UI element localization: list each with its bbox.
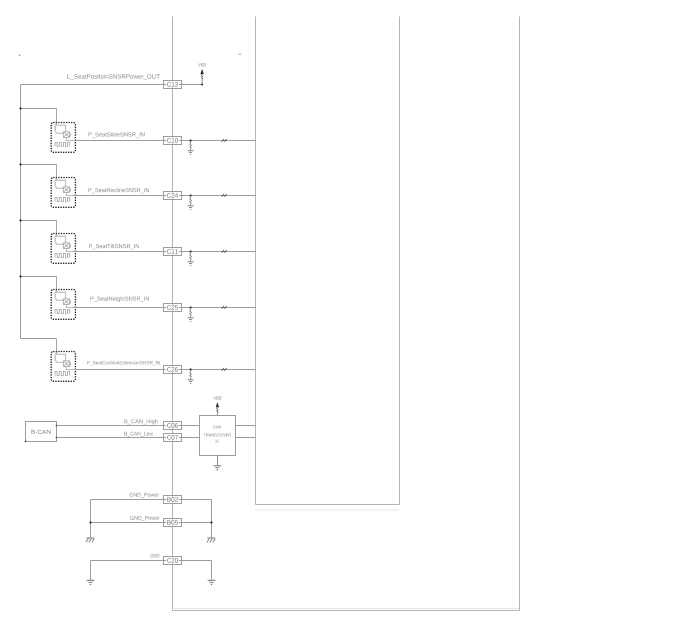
power symbol VBD at CAN transceiver xyxy=(214,396,222,399)
power symbol VBD at C13 xyxy=(198,63,206,66)
node faint speck top-left xyxy=(19,55,21,56)
wire left signal-ground drop xyxy=(90,561,92,580)
capacitor filter and ground at C26 xyxy=(190,368,192,370)
net label B_CAN_High xyxy=(125,419,158,424)
node supply bus junction 1 xyxy=(19,107,21,109)
node left power-ground junction xyxy=(89,521,91,523)
net label P_SeatCushionExtensionSNSR_IN xyxy=(87,361,160,366)
wire B_CAN_Low xyxy=(57,437,200,439)
wire P_SeatReclineSNSR_IN sensor to MCU xyxy=(75,195,255,197)
wire ECU outer boundary right xyxy=(519,17,521,611)
wire right signal-ground drop xyxy=(211,561,213,580)
capacitor filter and ground at C10 xyxy=(190,139,192,141)
capacitor filter and ground at C25 xyxy=(190,306,192,308)
wire inner MCU block bottom edge xyxy=(256,504,400,506)
net label B_CAN_Low xyxy=(124,432,153,437)
wire GND_Power B05 row xyxy=(91,522,212,524)
wire P_SeatCushionExtensionSNSR_IN sensor to MCU xyxy=(75,369,255,371)
wire crossing marks on C25 net xyxy=(222,306,224,308)
chassis ground left xyxy=(86,537,94,539)
wire ECU outer boundary bottom xyxy=(173,610,520,612)
wire faint ghost line above outer bottom xyxy=(174,608,519,610)
connector pin C13 xyxy=(164,81,182,89)
wire P_SeatSlideSNSR_IN sensor to MCU xyxy=(75,140,255,142)
wire sensor supply bus vertical xyxy=(20,85,22,339)
node supply bus junction 2 xyxy=(19,163,21,165)
wire supply stub to sensor 1 xyxy=(21,108,57,110)
potentiometer sensor B1 (P_SeatSlideSNSR_IN) xyxy=(51,123,75,153)
node faint speck top-middle xyxy=(239,54,241,55)
wire supply stub to sensor 4 xyxy=(21,276,57,278)
net label P_SeatSlideSNSR_IN xyxy=(89,132,145,137)
net label GND_Power (B02) xyxy=(130,493,160,498)
node supply bus junction 4 xyxy=(19,275,21,277)
wire crossing marks on C10 net xyxy=(222,139,224,141)
wire CAN TX to MCU xyxy=(236,425,256,427)
net label L_SeatPositoinSNSRPower_OUT xyxy=(68,74,160,80)
wire ECU connector boundary line (left) xyxy=(172,17,174,611)
net label GND_Power (B05) xyxy=(130,516,160,521)
wire inner MCU block right edge xyxy=(399,17,401,505)
node B-CAN pin low xyxy=(56,437,58,439)
connector pin B05 xyxy=(164,519,182,527)
wire faint ghost line below MCU bottom xyxy=(256,509,400,511)
connector pin C24 xyxy=(164,192,182,200)
net label P_SeatTiltSNSR_IN xyxy=(89,244,139,249)
connector B-CAN external node xyxy=(26,422,57,442)
net label P_SeatReclineSNSR_IN xyxy=(89,188,150,193)
wire supply stub to sensor 3 xyxy=(21,220,57,222)
wire P_SeatTiltSNSR_IN sensor to MCU xyxy=(75,251,255,253)
net label P_SeatHeightSNSR_IN xyxy=(91,296,149,301)
potentiometer sensor B4 (P_SeatHeightSNSR_IN) xyxy=(51,290,75,320)
wire right power-ground drop xyxy=(211,500,213,538)
wire left power-ground drop xyxy=(90,500,92,538)
ground left signal xyxy=(87,579,95,581)
wire supply stub to sensor 2 xyxy=(21,164,57,166)
connector pin C26 xyxy=(164,366,182,374)
op-amp U1 CAN transceiver IC xyxy=(200,416,236,456)
connector pin C25 xyxy=(164,304,182,312)
node B-CAN corner mark xyxy=(25,441,27,443)
chassis ground right xyxy=(207,537,215,539)
wire supply stub to sensor 5 xyxy=(21,338,57,340)
connector pin C10 xyxy=(164,137,182,145)
net label GND xyxy=(150,554,159,558)
connector pin C07 xyxy=(164,434,182,442)
connector pin C20 xyxy=(164,557,182,565)
connector pin C06 xyxy=(164,422,182,430)
capacitor filter and ground at C24 xyxy=(190,194,192,196)
wire P_SeatHeightSNSR_IN sensor to MCU xyxy=(75,307,255,309)
node right power-ground junction xyxy=(210,521,212,523)
ground right signal xyxy=(208,579,216,581)
capacitor filter and ground at C11 xyxy=(190,250,192,252)
wire crossing marks on C24 net xyxy=(222,194,224,196)
potentiometer sensor B3 (P_SeatTiltSNSR_IN) xyxy=(51,234,75,264)
potentiometer sensor B2 (P_SeatReclineSNSR_IN) xyxy=(51,178,75,208)
wire GND_Power B02 row xyxy=(91,499,212,501)
node B-CAN pin high xyxy=(56,425,58,427)
wire CAN RX to MCU xyxy=(236,437,256,439)
wire L_SeatPositoinSNSRPower_OUT xyxy=(21,84,203,86)
wire B_CAN_High xyxy=(57,425,200,427)
wire inner MCU block left edge xyxy=(255,17,257,505)
wire crossing marks on C26 net xyxy=(222,368,224,370)
connector pin B02 xyxy=(164,496,182,504)
potentiometer sensor B5 (P_SeatCushionExtensionSNSR_IN) xyxy=(51,352,75,382)
wire GND C20 row xyxy=(91,560,212,562)
ground at CAN transceiver xyxy=(216,456,218,466)
connector pin C11 xyxy=(164,248,182,256)
node supply bus junction 3 xyxy=(19,219,21,221)
wire crossing marks on C11 net xyxy=(222,250,224,252)
